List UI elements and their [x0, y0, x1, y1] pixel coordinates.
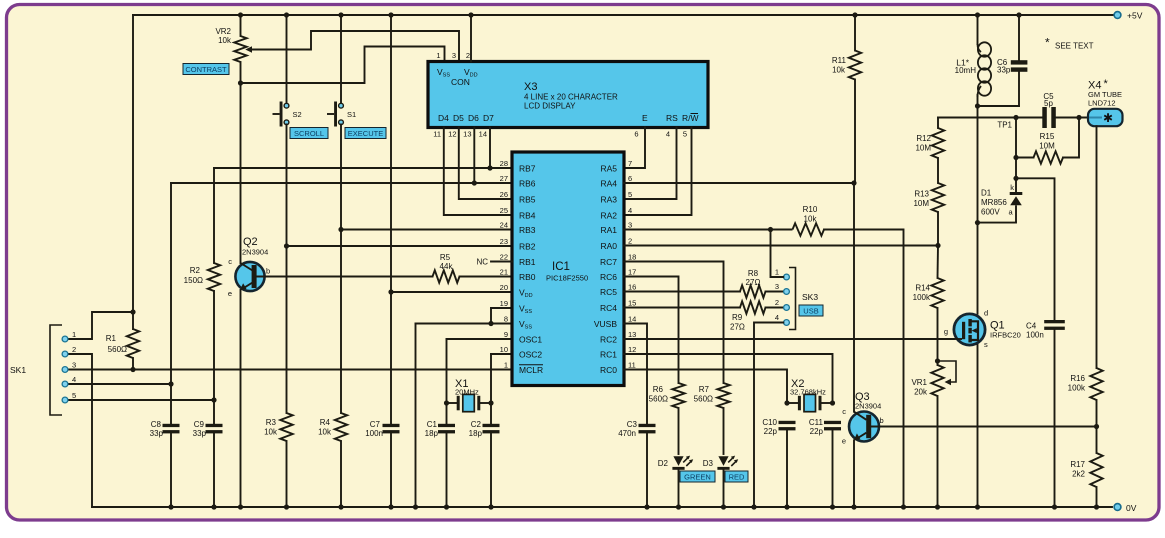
svg-text:20: 20: [500, 283, 508, 292]
pin NC stub RB1: [476, 258, 512, 267]
svg-text:3: 3: [452, 51, 456, 60]
wire R12 to R13: [937, 158, 939, 183]
label SEE TEXT: [1045, 36, 1094, 51]
svg-text:VR2: VR2: [215, 27, 231, 36]
svg-text:RA0: RA0: [600, 241, 617, 251]
svg-text:VR1: VR1: [911, 378, 927, 387]
junction dot VSS pins: [488, 321, 493, 326]
wire RA0 line to feedback divider: [624, 245, 938, 247]
wire RC4 to R9: [624, 307, 740, 309]
junction dots switch node: [975, 103, 980, 225]
capacitor C11: [824, 421, 841, 424]
svg-text:1: 1: [775, 268, 779, 277]
wire SK1 pin1 to +5V column: [68, 312, 133, 339]
svg-text:RED: RED: [729, 473, 745, 482]
wire RA4 line to R11/Q3 column: [624, 182, 854, 184]
wire TP1 to R12: [937, 118, 939, 129]
svg-text:12: 12: [448, 130, 456, 139]
svg-text:5p: 5p: [1044, 99, 1053, 108]
wire R1 bottom to MCLR line: [132, 358, 134, 370]
resistor R11: [832, 51, 861, 80]
svg-text:2: 2: [628, 237, 632, 246]
resistor R16: [1068, 368, 1103, 400]
wire C1 to 0V rail: [446, 433, 448, 507]
wire R11 to RA4 node: [854, 80, 856, 184]
svg-text:TP1: TP1: [997, 121, 1012, 130]
wire +5V down-left to R1: [132, 15, 134, 329]
svg-text:4: 4: [628, 206, 632, 215]
svg-text:R3: R3: [266, 418, 277, 427]
svg-text:18: 18: [628, 253, 636, 262]
svg-text:C8: C8: [151, 420, 162, 429]
wire +5V to LCD pin2 Vdd: [470, 15, 472, 62]
wire VSS pin 8 line: [416, 323, 513, 325]
transistor Q3: [842, 391, 884, 446]
junction dots SK1 area: [130, 309, 216, 402]
wire VUSB to C3: [624, 324, 647, 424]
wire OSC2 down to X1/C2: [490, 354, 492, 424]
wire +5V top rail: [133, 14, 1117, 16]
capacitor C8: [163, 424, 180, 427]
svg-text:2k2: 2k2: [1072, 470, 1085, 479]
svg-text:R9: R9: [732, 313, 743, 322]
svg-text:18p: 18p: [425, 429, 439, 438]
svg-text:28: 28: [500, 159, 508, 168]
svg-text:C9: C9: [194, 420, 205, 429]
capacitor C10: [779, 421, 796, 424]
svg-text:4: 4: [666, 130, 670, 139]
wire C9 to 0V rail: [213, 433, 215, 507]
svg-text:22p: 22p: [810, 427, 824, 436]
junction dot VR2 bottom: [238, 80, 243, 85]
potentiometer VR2: [215, 27, 252, 62]
svg-text:19: 19: [500, 299, 508, 308]
svg-text:9: 9: [504, 330, 508, 339]
svg-text:RB3: RB3: [519, 225, 536, 235]
svg-text:c: c: [228, 257, 232, 266]
junction dots X2 leads: [784, 400, 835, 405]
svg-text:32.768kHz: 32.768kHz: [790, 388, 826, 397]
capacitor C1: [438, 424, 455, 427]
svg-text:4 LINE x 20 CHARACTER: 4 LINE x 20 CHARACTER: [524, 93, 618, 102]
svg-text:CON: CON: [451, 77, 470, 87]
wire C11 to 0V rail: [832, 430, 834, 507]
svg-text:RC1: RC1: [600, 350, 617, 360]
inductor L1: [955, 42, 991, 97]
label box SCROLL: [290, 128, 328, 139]
junction dots +5V rail: [238, 12, 1022, 17]
wire switch node down to Q1 drain: [977, 106, 979, 314]
svg-text:GREEN: GREEN: [684, 473, 711, 482]
svg-text:D5: D5: [453, 113, 464, 123]
resistor R17: [1070, 453, 1102, 487]
svg-text:E: E: [642, 113, 648, 123]
resistor R10: [771, 205, 824, 236]
resistor R7: [694, 383, 730, 408]
svg-text:10M: 10M: [1039, 142, 1055, 151]
resistor R5: [433, 270, 460, 282]
wire C10 to 0V rail: [786, 430, 788, 507]
svg-text:5: 5: [628, 190, 632, 199]
svg-text:17: 17: [628, 268, 636, 277]
wire VR2 bottom to LCD pin1 Vss: [241, 47, 445, 84]
resistor R14: [913, 278, 944, 308]
wire +5V to R11: [854, 15, 856, 51]
svg-text:R7: R7: [699, 385, 710, 394]
wire +5V to S1: [340, 15, 342, 103]
svg-text:10M: 10M: [915, 144, 931, 153]
wire OSC1 pin 9: [447, 338, 513, 340]
wire L1 bottom: [977, 95, 979, 106]
svg-text:13: 13: [463, 130, 471, 139]
wire R13 to RA0 node: [937, 212, 939, 246]
svg-text:11: 11: [433, 130, 441, 139]
svg-text:d: d: [984, 309, 988, 318]
wire R9 to SK3 pin2: [766, 307, 784, 309]
wire HV node TP1 line: [938, 117, 1042, 119]
svg-text:10: 10: [500, 345, 508, 354]
svg-text:R4: R4: [320, 418, 331, 427]
wire RC5 to R8: [624, 291, 740, 293]
wire RC1 to X2 right: [624, 354, 833, 403]
svg-text:NC: NC: [476, 258, 488, 267]
resistor R6: [649, 383, 685, 408]
svg-text:470n: 470n: [618, 429, 636, 438]
svg-text:44k: 44k: [440, 262, 454, 271]
svg-text:23: 23: [500, 237, 508, 246]
svg-text:12: 12: [628, 345, 636, 354]
svg-text:C11: C11: [809, 418, 824, 427]
svg-text:s: s: [984, 340, 988, 349]
wire R7 to D3: [723, 408, 725, 454]
svg-text:14: 14: [479, 130, 487, 139]
svg-text:C4: C4: [1026, 322, 1037, 331]
junction dot VDD tap: [388, 289, 393, 294]
svg-text:RS: RS: [666, 113, 678, 123]
svg-text:MCLR: MCLR: [519, 365, 543, 375]
svg-text:22p: 22p: [764, 427, 778, 436]
label box CONTRAST: [183, 64, 229, 75]
svg-text:R17: R17: [1070, 460, 1085, 469]
connector SK3 USB: [775, 268, 819, 330]
resistor R1: [127, 329, 139, 358]
svg-text:6: 6: [628, 174, 632, 183]
svg-text:D1: D1: [981, 189, 992, 198]
svg-text:R5: R5: [440, 253, 451, 262]
svg-text:EXECUTE: EXECUTE: [348, 129, 383, 138]
wire RB7 line: [214, 167, 512, 169]
wire VDD pin 20: [391, 291, 512, 293]
wire SK1 pin5 to RB7 column: [68, 399, 214, 401]
wire SK3 pin4 to 0V rail: [754, 323, 783, 508]
svg-text:14: 14: [628, 315, 636, 324]
terminal 0V: [1114, 504, 1121, 511]
wire Vss net down to Q2 collector: [240, 83, 242, 263]
transistor Q2: [228, 236, 270, 298]
wire HV to C4: [1016, 178, 1055, 320]
svg-text:RB5: RB5: [519, 195, 536, 205]
wire RB7 line down to R2: [213, 168, 215, 263]
svg-text:*: *: [1045, 36, 1050, 50]
wire R14 to VR1: [937, 308, 939, 365]
resistor R9: [730, 301, 766, 331]
svg-text:25: 25: [500, 206, 508, 215]
svg-text:MR856: MR856: [981, 198, 1007, 207]
label box USB: [799, 305, 823, 316]
svg-text:8: 8: [504, 315, 508, 324]
crystal X1: [447, 378, 492, 412]
svg-text:PIC18F2550: PIC18F2550: [546, 274, 588, 283]
svg-text:CONTRAST: CONTRAST: [185, 65, 227, 74]
svg-text:10k: 10k: [804, 215, 818, 224]
svg-text:OSC1: OSC1: [519, 335, 542, 345]
svg-text:R14: R14: [915, 284, 930, 293]
svg-text:20k: 20k: [914, 388, 928, 397]
wire RA0 node to R14: [937, 246, 940, 279]
svg-text:2: 2: [775, 298, 779, 307]
svg-text:RC7: RC7: [600, 257, 617, 267]
svg-text:2: 2: [72, 345, 76, 354]
svg-text:IRFBC20: IRFBC20: [990, 331, 1021, 340]
connector SK1: [10, 325, 76, 415]
junction dots D6/D7 on RB lines: [472, 165, 493, 185]
svg-text:RB1: RB1: [519, 257, 536, 267]
wire HV to R15: [1016, 157, 1034, 159]
wire RB3 line: [341, 229, 512, 231]
svg-text:RA4: RA4: [600, 179, 617, 189]
svg-text:600V: 600V: [981, 208, 1000, 217]
wire R8 to SK3 pin3: [766, 291, 784, 293]
wire Q3 emitter to 0V rail: [853, 440, 855, 507]
svg-text:RB7: RB7: [519, 164, 536, 174]
svg-text:RB4: RB4: [519, 211, 536, 221]
label box GREEN: [680, 471, 715, 482]
wire RB6 column down to C8: [170, 183, 172, 424]
svg-text:560Ω: 560Ω: [694, 395, 713, 404]
wire LCD D7 drop: [489, 128, 491, 169]
svg-text:2: 2: [466, 51, 470, 60]
LED D2 GREEN: [658, 456, 693, 470]
IC U1 / IC1 PIC18F2550: [500, 152, 637, 386]
wire RC6 to R6: [624, 277, 679, 384]
wire RC0 to X2 left: [624, 370, 787, 404]
wire Q1 source to 0V rail: [977, 345, 979, 507]
svg-text:USB: USB: [803, 307, 818, 316]
svg-text:D4: D4: [438, 113, 449, 123]
wire C7 to 0V rail: [390, 433, 392, 507]
wire D1 anode to switch node: [978, 222, 1017, 224]
wire VSS pin 19 stub: [491, 307, 512, 309]
wire VSS to 0V rail: [415, 324, 417, 508]
label box RED: [725, 471, 748, 482]
wire LCD R/W to RA2: [624, 128, 692, 216]
svg-text:C10: C10: [762, 418, 777, 427]
junction dot Q3 base node: [1094, 424, 1099, 429]
wire VR1 to 0V rail: [937, 396, 939, 507]
svg-text:R15: R15: [1040, 132, 1055, 141]
wire +5V to VR2: [240, 15, 242, 36]
wire D2 to 0V rail: [678, 470, 680, 507]
svg-text:D6: D6: [468, 113, 479, 123]
wire RB6 line: [171, 182, 512, 184]
crystal X2: [787, 378, 833, 412]
svg-text:X3: X3: [524, 81, 537, 93]
wire S1 to RB3 and R4: [340, 125, 342, 414]
resistor R13: [913, 183, 944, 212]
wire R3 to 0V rail: [286, 441, 288, 507]
svg-text:RC0: RC0: [600, 365, 617, 375]
svg-text:100n: 100n: [1026, 331, 1044, 340]
svg-text:150Ω: 150Ω: [184, 276, 203, 285]
wire SK1 pin3 / MCLR line to IC1: [68, 369, 512, 371]
svg-text:C7: C7: [370, 420, 381, 429]
wire R5 to IC1 RB0: [460, 276, 513, 278]
svg-text:b: b: [266, 267, 270, 276]
wire pin19 to pin8: [490, 308, 492, 324]
GM tube X4 LND712: [1088, 78, 1123, 126]
svg-text:33p: 33p: [997, 66, 1011, 75]
wire RB2 line: [287, 245, 513, 247]
svg-text:13: 13: [628, 330, 636, 339]
svg-text:C2: C2: [471, 420, 482, 429]
svg-text:LCD DISPLAY: LCD DISPLAY: [524, 102, 576, 111]
resistor R2: [208, 263, 220, 291]
svg-text:RC6: RC6: [600, 272, 617, 282]
wire R2 to C9: [213, 291, 215, 424]
svg-text:10k: 10k: [832, 66, 846, 75]
junction dots 0V rail: [168, 504, 1099, 509]
svg-text:10k: 10k: [218, 36, 232, 45]
svg-text:27Ω: 27Ω: [746, 278, 761, 287]
svg-text:RA2: RA2: [600, 211, 617, 221]
svg-text:560Ω: 560Ω: [649, 395, 668, 404]
svg-text:R2: R2: [190, 266, 201, 275]
svg-text:✱: ✱: [1103, 111, 1113, 125]
switch S2: [273, 102, 302, 127]
svg-text:100n: 100n: [365, 429, 383, 438]
svg-text:1: 1: [436, 51, 440, 60]
svg-text:26: 26: [500, 190, 508, 199]
svg-text:R8: R8: [748, 269, 759, 278]
svg-text:2N3904: 2N3904: [242, 248, 268, 257]
diode D1: [981, 180, 1022, 223]
svg-text:SK1: SK1: [10, 365, 26, 375]
wire 0V ground rail: [92, 506, 1112, 508]
wire RA4 node down to Q3 collector: [853, 183, 855, 412]
capacitor C3: [639, 424, 656, 427]
wire RA1 line: [624, 229, 771, 231]
svg-text:c: c: [842, 407, 846, 416]
label box EXECUTE: [345, 128, 386, 139]
wire C2 to 0V rail: [490, 433, 492, 507]
svg-text:C1: C1: [427, 420, 438, 429]
svg-text:e: e: [842, 437, 846, 446]
svg-text:27Ω: 27Ω: [730, 323, 745, 332]
svg-text:R1: R1: [106, 334, 117, 343]
capacitor C5: [1042, 92, 1056, 128]
svg-text:18p: 18p: [469, 429, 483, 438]
svg-text:2N3904: 2N3904: [855, 402, 881, 411]
resistor R8: [740, 269, 766, 298]
wire +5V to L1: [977, 15, 979, 44]
wire R6 to D2: [678, 408, 680, 454]
svg-text:RB0: RB0: [519, 272, 536, 282]
terminal +5V: [1114, 12, 1121, 19]
junction dots RA lines: [768, 180, 941, 248]
svg-text:6: 6: [634, 130, 638, 139]
wire VR2 wiper to LCD pin3: [252, 31, 459, 62]
resistor R3: [280, 413, 292, 441]
svg-text:S2: S2: [293, 110, 302, 119]
svg-text:10mH: 10mH: [955, 66, 977, 75]
svg-text:4: 4: [72, 375, 76, 384]
junction dot VR1 wiper: [935, 358, 940, 363]
junction dots S2/S1 to RB lines: [284, 227, 344, 249]
wire R4 to 0V rail: [340, 441, 342, 507]
svg-text:S1: S1: [347, 110, 356, 119]
svg-text:100k: 100k: [913, 293, 931, 302]
svg-text:D7: D7: [483, 113, 494, 123]
wire LCD D5 to RB5: [459, 128, 512, 200]
svg-text:11: 11: [628, 361, 636, 370]
svg-text:SK3: SK3: [802, 292, 818, 302]
svg-text:RA5: RA5: [600, 164, 617, 174]
svg-text:R11: R11: [832, 56, 847, 65]
svg-text:e: e: [228, 289, 232, 298]
svg-text:LND712: LND712: [1088, 98, 1116, 107]
svg-text:Q2: Q2: [243, 236, 258, 248]
wire +5V to C7 and VDD pin20: [390, 15, 392, 424]
svg-text:R10: R10: [803, 205, 818, 214]
wire VR2 bottom lead: [240, 62, 242, 83]
resistor R15: [1034, 132, 1064, 164]
wire Q2 emitter to 0V rail: [240, 290, 242, 507]
svg-text:5: 5: [683, 130, 687, 139]
wire LCD RS to RA3: [624, 128, 677, 200]
wire +5V to C6: [1018, 15, 1020, 60]
svg-text:560Ω: 560Ω: [108, 345, 127, 354]
svg-text:k: k: [1010, 183, 1014, 192]
wire C3 to 0V rail: [646, 433, 648, 507]
wire D3 to 0V rail: [723, 470, 725, 507]
junction dots X1 leads: [444, 400, 494, 405]
wire RC2 gate-drive line to Q1 gate: [624, 338, 954, 340]
LED D3 RED: [703, 456, 738, 470]
svg-text:3: 3: [775, 282, 779, 291]
svg-text:IC1: IC1: [552, 261, 570, 273]
junction dots HV node: [1013, 115, 1081, 181]
wire GM tube cathode to R16: [1096, 126, 1098, 368]
svg-text:RA1: RA1: [600, 225, 617, 235]
wire L1 bottom to C6 bottom: [978, 105, 1020, 107]
svg-text:C3: C3: [627, 420, 638, 429]
capacitor C6: [997, 58, 1027, 75]
svg-text:g: g: [944, 327, 948, 336]
wire SK1 pin2 to 0V rail: [68, 354, 92, 507]
MOSFET Q1 IRFBC20: [944, 309, 1021, 350]
resistor R4: [335, 413, 347, 441]
LCD display X3: [428, 51, 708, 139]
svg-text:24: 24: [500, 221, 508, 230]
svg-text:D3: D3: [703, 459, 714, 468]
svg-text:1: 1: [72, 330, 76, 339]
switch S1: [327, 102, 356, 127]
svg-text:3: 3: [72, 361, 76, 370]
capacitor C2: [483, 424, 500, 427]
svg-text:RA3: RA3: [600, 195, 617, 205]
svg-text:16: 16: [628, 283, 636, 292]
svg-text:4: 4: [775, 313, 779, 322]
